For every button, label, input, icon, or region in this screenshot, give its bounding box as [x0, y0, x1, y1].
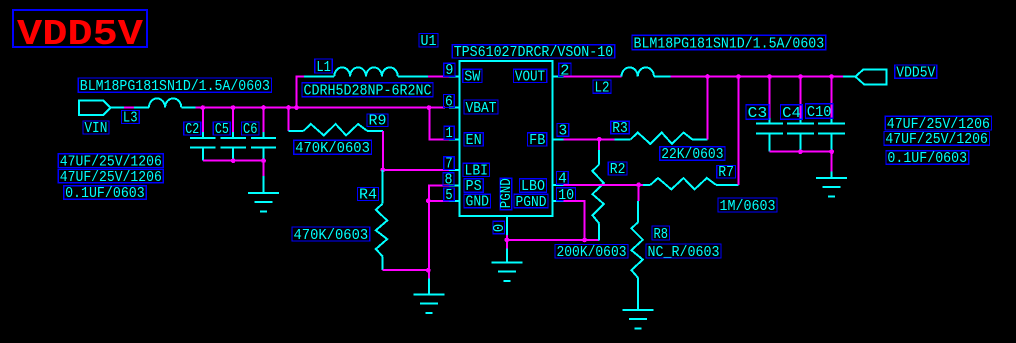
- wire PS pin to ground column: [429, 186, 449, 279]
- label C6: [242, 122, 260, 138]
- label R4: [358, 188, 379, 204]
- svg-text:C2: C2: [185, 122, 199, 138]
- pin name EN: [464, 133, 483, 149]
- ground under pin 0: [491, 249, 522, 281]
- svg-text:R4: R4: [359, 188, 377, 204]
- pin 4 number: [557, 171, 569, 187]
- pin 10 number: [557, 188, 576, 204]
- svg-text:FB: FB: [529, 133, 545, 149]
- svg-text:R8: R8: [654, 227, 669, 243]
- pin 7 stub: [449, 169, 460, 171]
- svg-text:L1: L1: [316, 60, 331, 76]
- junction R7 riser: [736, 74, 741, 79]
- pin 0 number vertical: [492, 221, 508, 233]
- pin 1 number: [444, 126, 454, 142]
- junction pin 0: [504, 238, 509, 243]
- svg-text:CDRH5D28NP-6R2NC: CDRH5D28NP-6R2NC: [304, 84, 432, 100]
- label L1: [315, 59, 333, 76]
- wire R4 bottom to ground node: [383, 269, 429, 271]
- svg-text:R7: R7: [718, 165, 734, 181]
- wire R2 top lead: [598, 139, 600, 150]
- wire C3 group bottom rail: [770, 151, 832, 153]
- capacitor C2: [190, 108, 215, 161]
- junction LBO node: [636, 182, 641, 187]
- pin 8 number: [443, 173, 454, 189]
- pin name FB: [528, 133, 547, 149]
- label BLM18PG181SN1D/1.5A/0603 left: [78, 78, 271, 95]
- junction C10 rail: [829, 74, 834, 79]
- pin name LBO: [520, 179, 547, 195]
- label L3: [121, 111, 139, 127]
- wire rail to L1: [297, 77, 305, 108]
- junction EN rail: [427, 105, 432, 110]
- label C2: [184, 122, 201, 138]
- wire R3 to VDD5V rail: [707, 77, 709, 140]
- svg-text:C4: C4: [782, 106, 801, 122]
- inductor L2: [622, 67, 671, 76]
- wire to ground under C6: [263, 161, 265, 176]
- wire L1 to SW pin: [428, 76, 449, 78]
- resistor R8: [631, 201, 642, 310]
- junction C4 bottom: [798, 149, 803, 154]
- svg-text:BLM18PG181SN1D/1.5A/0603: BLM18PG181SN1D/1.5A/0603: [634, 36, 825, 52]
- svg-text:R3: R3: [612, 121, 628, 137]
- ground under R8: [623, 310, 654, 329]
- label C3: [746, 105, 769, 122]
- junction GND pin column: [426, 198, 431, 203]
- svg-text:47UF/25V/1206: 47UF/25V/1206: [885, 132, 988, 148]
- svg-text:PGND: PGND: [516, 195, 547, 211]
- op-amp U1 TPS61027DRCR body: [459, 61, 552, 216]
- svg-text:47UF/25V/1206: 47UF/25V/1206: [60, 170, 162, 186]
- resistor R9: [289, 124, 383, 135]
- svg-text:0: 0: [492, 224, 508, 233]
- pin 2 number: [559, 63, 571, 79]
- resistor R7: [643, 178, 738, 189]
- capacitor C6: [251, 108, 276, 161]
- pin name LBI: [463, 163, 490, 179]
- wire R9 to LBI node: [382, 131, 384, 170]
- label R2: [608, 162, 627, 178]
- junction R2 top: [597, 137, 602, 142]
- svg-text:47UF/25V/1206: 47UF/25V/1206: [60, 155, 162, 171]
- svg-text:3: 3: [559, 123, 568, 139]
- pin 0 stub bottom: [506, 216, 508, 235]
- wire GND pin to column: [428, 200, 449, 202]
- junction pin 10 drop: [582, 238, 587, 243]
- pin 10 stub: [553, 200, 564, 202]
- pin 9 number: [444, 63, 455, 79]
- inductor L1: [304, 67, 428, 76]
- svg-text:PS: PS: [466, 179, 482, 195]
- label R8: [652, 226, 670, 243]
- label 1M/0603: [718, 198, 777, 215]
- label 470K/0603 for R9: [294, 140, 372, 157]
- junction C10 bottom: [829, 149, 834, 154]
- label 47UF/25V/1206 right first: [885, 116, 991, 133]
- label CDRH5D28NP-6R2NC: [302, 83, 433, 100]
- pin 2 stub: [553, 76, 564, 78]
- wire VDD5V rail: [670, 76, 843, 78]
- inductor L3: [134, 98, 196, 107]
- svg-text:GND: GND: [466, 195, 490, 211]
- label TPS61027DRCR/VSON-10: [452, 45, 615, 61]
- pin 6 number: [444, 94, 455, 110]
- svg-text:L3: L3: [123, 111, 138, 127]
- title VDD5V: [13, 10, 147, 55]
- ground under PS/GND column: [413, 278, 444, 313]
- wire VIN to L3: [111, 107, 125, 109]
- label R7: [717, 165, 736, 181]
- svg-text:47UF/25V/1206: 47UF/25V/1206: [887, 117, 990, 133]
- wire LBO to node: [564, 184, 644, 186]
- svg-text:C3: C3: [748, 106, 768, 122]
- port VDD5V: [843, 69, 887, 84]
- svg-text:LBI: LBI: [465, 164, 489, 180]
- pin 1 stub: [449, 138, 460, 140]
- svg-text:C6: C6: [243, 122, 258, 138]
- svg-text:LBO: LBO: [521, 179, 545, 195]
- svg-text:VDD5V: VDD5V: [896, 65, 935, 81]
- resistor R4: [376, 170, 387, 270]
- label NC_R/0603: [646, 244, 721, 261]
- label 0.1UF/0603 right: [886, 151, 969, 167]
- pin 8 stub: [449, 185, 460, 187]
- pin name PS: [464, 179, 483, 195]
- svg-text:PGND: PGND: [499, 178, 515, 208]
- pin name GND: [464, 194, 491, 210]
- pin name PGND right: [514, 194, 548, 211]
- label L2: [593, 80, 611, 96]
- wire VBAT rail: [196, 107, 446, 109]
- svg-text:VBAT: VBAT: [466, 101, 497, 117]
- pin 3 number: [557, 123, 569, 139]
- svg-text:VOUT: VOUT: [515, 69, 545, 85]
- label U1: [419, 34, 438, 51]
- svg-text:SW: SW: [464, 69, 480, 85]
- label 200K/0603: [555, 245, 628, 262]
- junction C5 rail: [231, 105, 236, 110]
- pin name VBAT: [464, 100, 498, 117]
- svg-text:EN: EN: [466, 133, 482, 149]
- wire rail to R9: [288, 108, 290, 131]
- label VIN: [83, 121, 109, 137]
- capacitor C10: [818, 77, 845, 152]
- pin 4 stub: [553, 184, 564, 186]
- resistor R3: [615, 133, 708, 144]
- svg-text:0.1UF/0603: 0.1UF/0603: [887, 151, 967, 167]
- pin 9 stub: [449, 76, 460, 78]
- label 47UF/25V/1206 first: [58, 154, 163, 171]
- svg-text:BLM18PG181SN1D/1.5A/0603: BLM18PG181SN1D/1.5A/0603: [80, 79, 270, 95]
- junction C5 bottom: [231, 158, 236, 163]
- junction C6 bottom: [261, 158, 266, 163]
- wire LBI node to pin 7: [383, 169, 449, 171]
- wire VOUT to L2: [564, 76, 622, 78]
- wire pin 10 to bottom rail: [564, 201, 585, 240]
- svg-text:470K/0603: 470K/0603: [295, 141, 370, 157]
- wire R8 top: [638, 185, 640, 201]
- svg-text:200K/0603: 200K/0603: [557, 245, 627, 261]
- pin 7 number: [444, 157, 454, 173]
- wire pin 0 down: [506, 235, 508, 249]
- ground under C6: [248, 176, 279, 212]
- label 0.1UF/0603 left: [64, 186, 147, 202]
- pin 5 number: [444, 188, 454, 204]
- svg-text:L2: L2: [595, 80, 610, 96]
- svg-text:U1: U1: [421, 34, 437, 50]
- capacitor C4: [787, 77, 814, 152]
- label 47UF/25V/1206 right second: [884, 132, 990, 149]
- junction C3 rail: [767, 74, 772, 79]
- wire to ground under C10: [831, 152, 833, 172]
- junction R3 riser: [705, 74, 710, 79]
- label VDD5V net: [895, 65, 937, 81]
- ground under C10: [816, 172, 847, 197]
- port VIN: [79, 100, 110, 115]
- svg-text:5: 5: [445, 188, 452, 204]
- wire R7 to VDD5V rail: [737, 77, 739, 185]
- label 470K/0603 for R4: [292, 227, 370, 244]
- pin name VOUT: [513, 69, 546, 85]
- svg-text:7: 7: [445, 157, 452, 173]
- pin 3 stub: [553, 138, 564, 140]
- junction R4 ground node: [426, 268, 431, 273]
- svg-text:6: 6: [445, 95, 453, 111]
- label R9: [367, 114, 388, 130]
- label C4: [781, 105, 803, 122]
- capacitor C3: [756, 77, 783, 152]
- pin 5 stub: [449, 200, 460, 202]
- capacitor C5: [220, 108, 245, 161]
- label 47UF/25V/1206 second: [58, 170, 163, 186]
- svg-text:C10: C10: [807, 105, 832, 121]
- junction C2 rail: [200, 105, 205, 110]
- junction R9 rail: [286, 105, 291, 110]
- svg-text:TPS61027DRCR/VSON-10: TPS61027DRCR/VSON-10: [454, 45, 614, 61]
- wire FB to R3: [564, 138, 615, 140]
- svg-text:R9: R9: [369, 114, 387, 130]
- wire EN drop: [429, 108, 449, 140]
- svg-text:NC_R/0603: NC_R/0603: [648, 245, 720, 261]
- svg-text:8: 8: [445, 173, 453, 189]
- junction C4 rail: [798, 74, 803, 79]
- label 22K/0603: [660, 147, 725, 163]
- wire capacitor bottom rail: [203, 160, 264, 162]
- resistor R2: [592, 150, 603, 241]
- pin 6 stub: [449, 107, 460, 109]
- label C5: [213, 122, 230, 138]
- junction LBI node: [380, 168, 385, 173]
- pin name PGND vertical: [499, 178, 515, 210]
- svg-text:C5: C5: [215, 122, 229, 138]
- svg-text:470K/0603: 470K/0603: [294, 228, 369, 244]
- junction C6 rail: [261, 105, 266, 110]
- svg-text:R2: R2: [610, 162, 626, 178]
- label BLM18PG181SN1D/1.5A/0603 right: [632, 35, 826, 52]
- svg-text:22K/0603: 22K/0603: [661, 147, 723, 163]
- svg-text:9: 9: [445, 63, 453, 79]
- label C10: [805, 104, 833, 121]
- pin name SW: [463, 69, 482, 85]
- junction L1 rail: [294, 105, 299, 110]
- label R3: [611, 121, 630, 137]
- svg-text:VDD5V: VDD5V: [17, 14, 143, 55]
- svg-text:1M/0603: 1M/0603: [720, 199, 776, 215]
- svg-text:VIN: VIN: [84, 121, 107, 137]
- svg-text:1: 1: [446, 126, 453, 142]
- wire PGND bottom rail: [507, 239, 599, 241]
- svg-text:0.1UF/0603: 0.1UF/0603: [65, 186, 145, 202]
